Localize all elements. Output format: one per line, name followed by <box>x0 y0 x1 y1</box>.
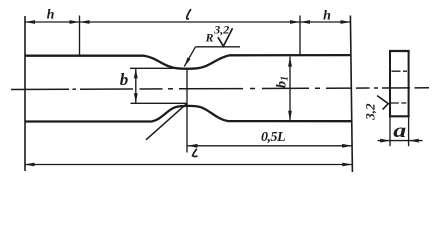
diagonal leader to bottom fillet <box>146 103 187 140</box>
svg-text:h: h <box>47 7 55 22</box>
arrows of h left dimension <box>25 20 35 24</box>
specimen right end edge / extension line <box>350 16 352 173</box>
top dimension line (h, l, h chain) <box>25 21 351 23</box>
specimen left end edge / extension line <box>24 16 26 171</box>
dimension b1: vertical line with arrows <box>289 57 291 121</box>
svg-text:b: b <box>120 70 129 89</box>
svg-text:R: R <box>205 31 214 45</box>
arrows of l dimension <box>80 20 90 24</box>
extension line at x=300 (l/h boundary, right) <box>299 16 301 56</box>
side view: right edge <box>408 51 410 118</box>
specimen top edge with fillet dip (radius R) <box>25 55 351 69</box>
dimension b: extension lines <box>130 67 187 69</box>
leader line with arrow to fillet R <box>184 47 195 67</box>
arrows of h right dimension <box>300 20 310 24</box>
extension line at x=79.5 (h/l boundary, left) <box>79 16 81 56</box>
svg-text:0,5L: 0,5L <box>261 130 285 145</box>
dimension L (overall length) line <box>25 164 353 166</box>
extension line at specimen centre x=187 <box>186 69 188 153</box>
centre axis (dash-dot) <box>11 88 429 90</box>
svg-text:3,2: 3,2 <box>213 23 229 37</box>
label l (top) <box>187 10 191 19</box>
roughness check mark (side view) <box>377 96 388 110</box>
roughness check mark (top) <box>218 28 233 46</box>
side view: top edge <box>389 50 410 52</box>
side view: bottom edge <box>389 115 410 117</box>
side view: hidden line (bottom of reduced section) <box>391 102 408 104</box>
svg-text:h: h <box>323 9 331 24</box>
dimension a line with outside arrows <box>378 140 423 142</box>
leader shelf for R and roughness mark <box>196 46 241 48</box>
dimension b: vertical line with arrows <box>135 68 137 103</box>
label L (bottom) <box>193 149 197 156</box>
svg-text:3,2: 3,2 <box>363 103 378 121</box>
side view: hidden line (top of reduced section) <box>392 70 409 72</box>
side view: left edge <box>389 51 391 118</box>
svg-text:b1: b1 <box>275 76 291 88</box>
dimension 0,5L line <box>188 145 353 147</box>
svg-text:a: a <box>393 120 406 142</box>
specimen bottom edge with fillet bulge <box>25 106 352 122</box>
